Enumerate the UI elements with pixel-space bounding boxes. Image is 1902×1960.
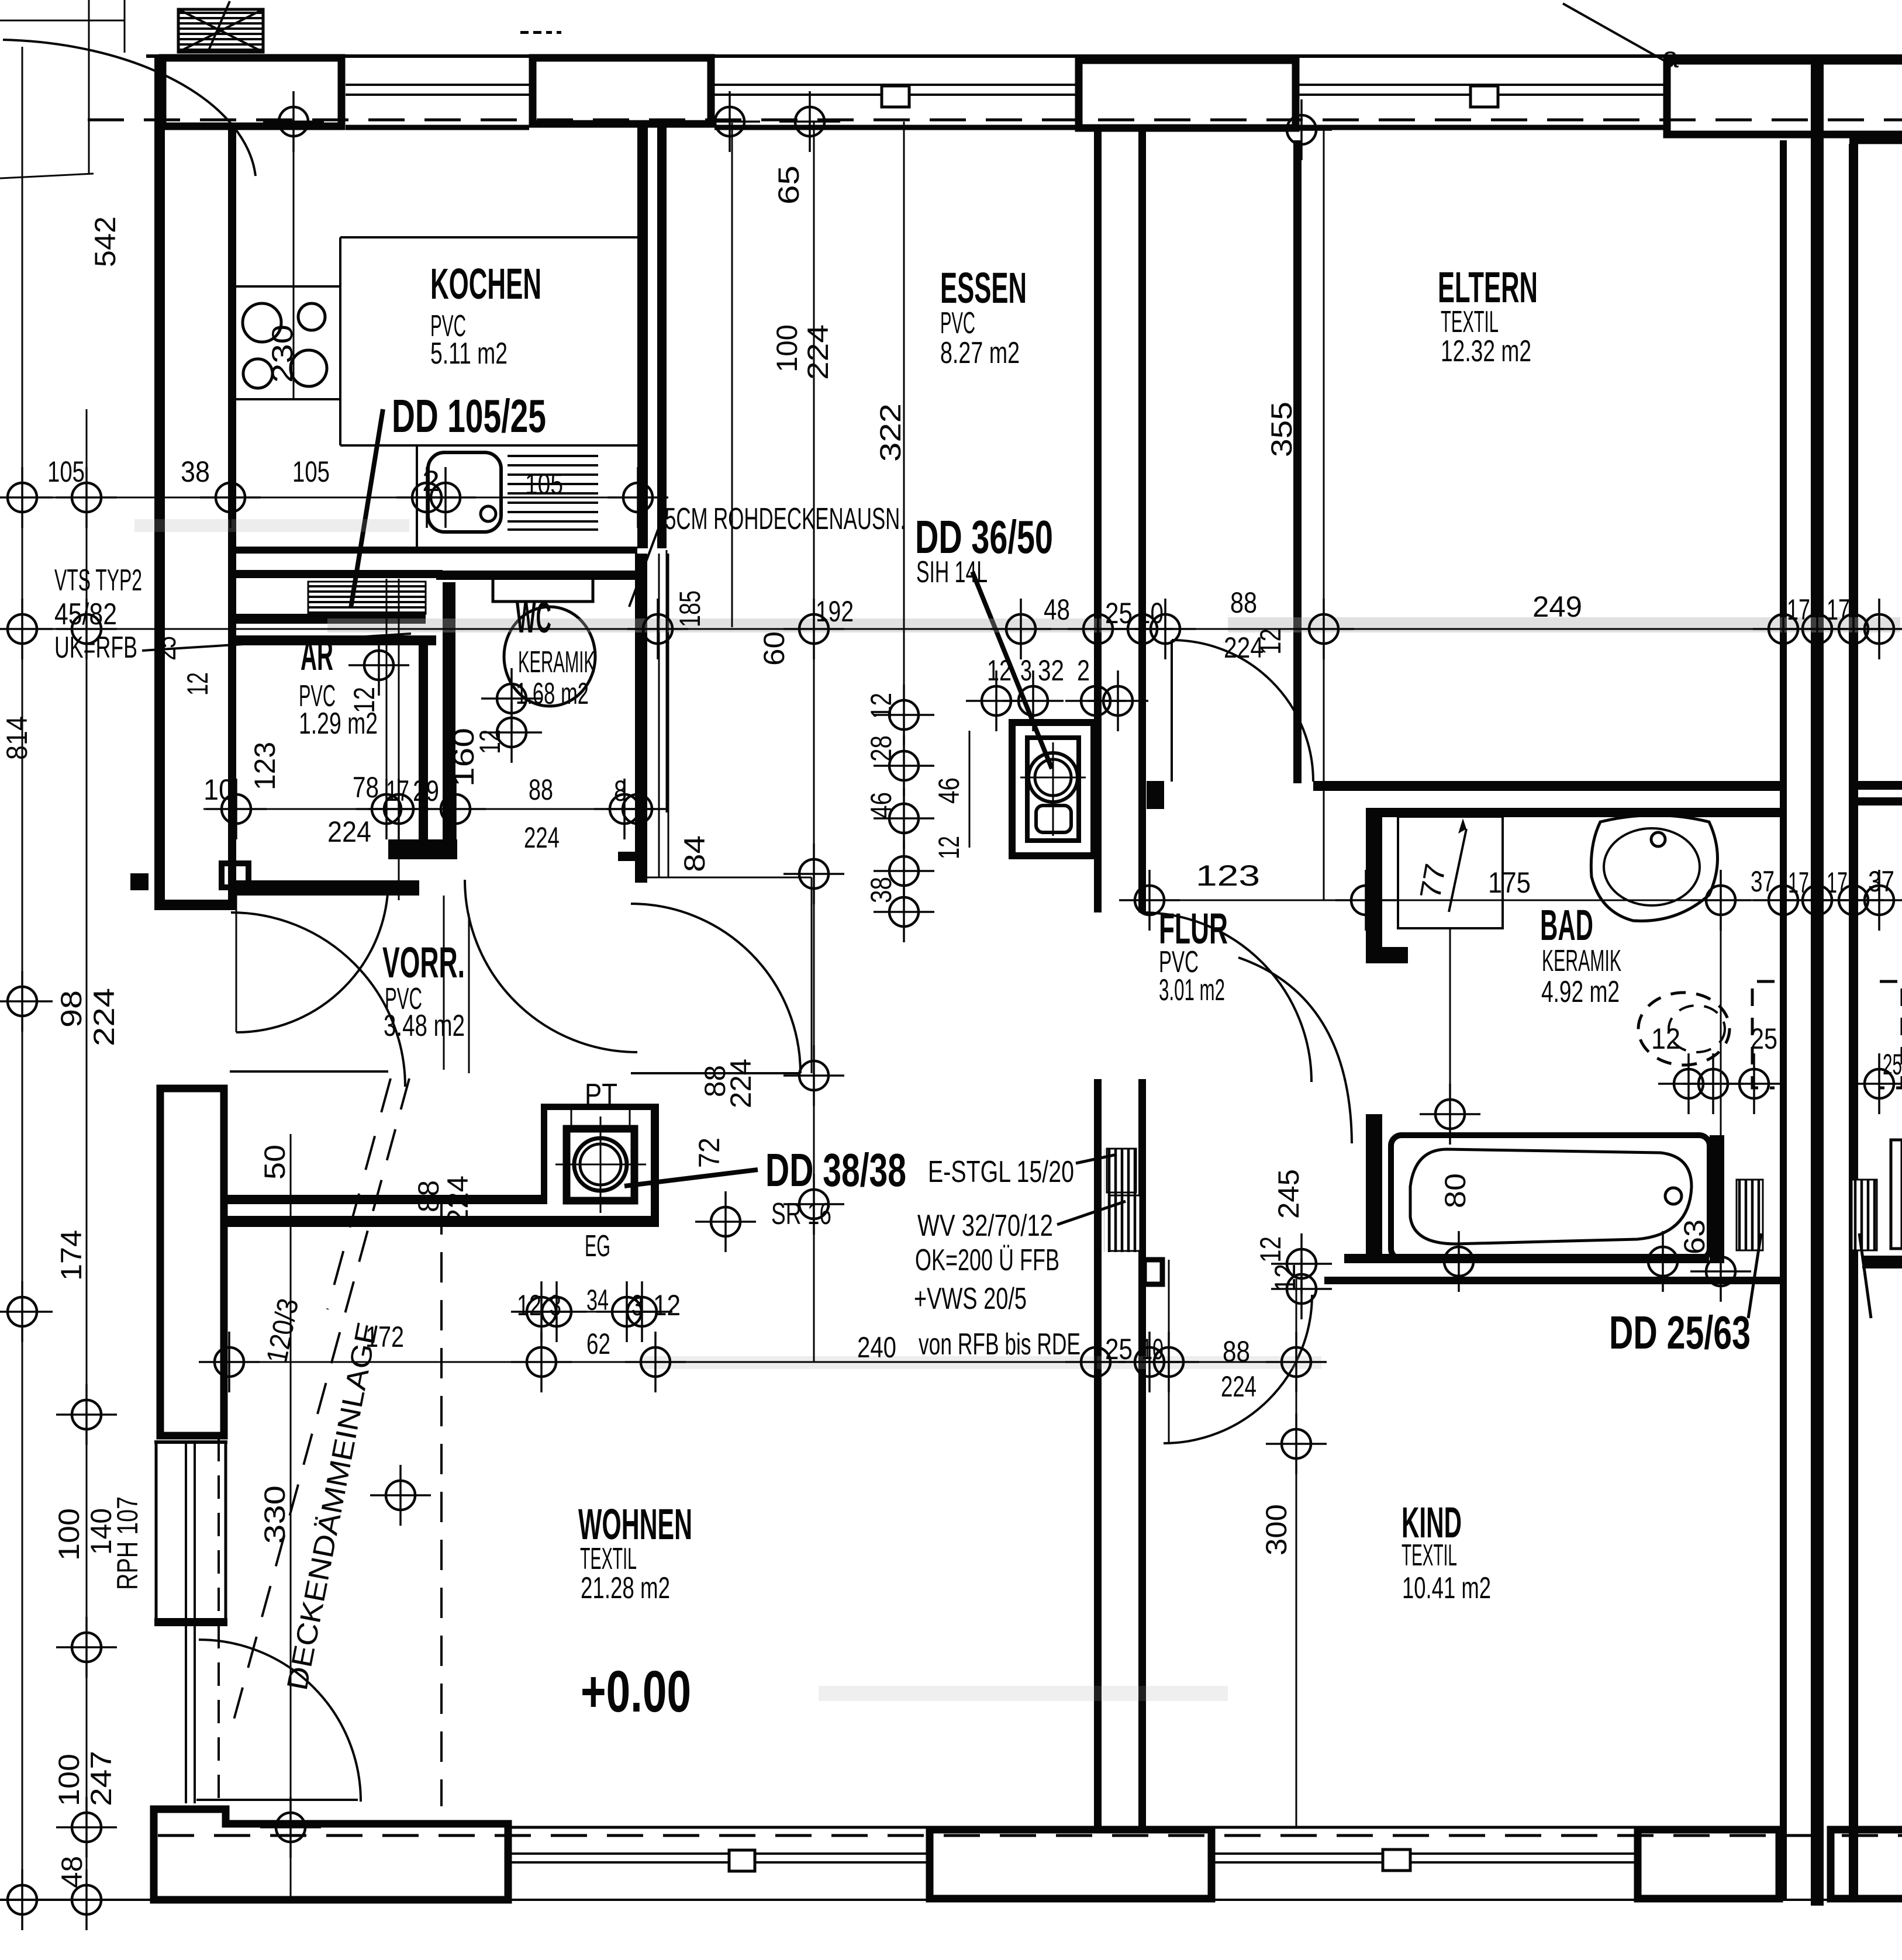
svg-text:224: 224 <box>1221 1370 1257 1403</box>
svg-text:88: 88 <box>529 773 553 806</box>
ESSEN/FLUR wall bar east lower <box>1138 1079 1146 1830</box>
svg-text:12: 12 <box>933 836 965 859</box>
terrace window left: outer line <box>155 1440 158 1623</box>
dashed bracket right <box>1752 981 1775 1088</box>
kitchen west wall bar <box>228 125 236 910</box>
bottom-left wall chunk A <box>154 1809 508 1900</box>
svg-text:542: 542 <box>89 216 122 267</box>
svg-text:105: 105 <box>292 455 330 488</box>
bottom terrace window WOHNEN <box>508 1827 926 1862</box>
vertical dim line far left <box>22 47 23 1900</box>
svg-text:5.11 m2: 5.11 m2 <box>430 337 508 371</box>
window W2 center box <box>882 86 909 107</box>
corridor thin line right <box>811 877 813 1073</box>
svg-text:25: 25 <box>1105 1333 1133 1366</box>
svg-text:12: 12 <box>348 687 381 713</box>
entrance door arc <box>231 912 405 1087</box>
KIND chain x1999 <box>1168 1285 1170 1443</box>
svg-text:+0.00: +0.00 <box>581 1659 691 1724</box>
VORR-WOHNEN threshold <box>631 1072 800 1074</box>
svg-text:25: 25 <box>149 636 182 661</box>
svg-text:8: 8 <box>614 775 627 807</box>
neighbour structure top-left <box>0 0 125 178</box>
svg-text:2: 2 <box>1077 654 1090 687</box>
svg-text:DD 38/38: DD 38/38 <box>765 1144 906 1196</box>
svg-text:12: 12 <box>987 654 1012 687</box>
svg-text:249: 249 <box>1532 590 1582 623</box>
kitchen label area frame left <box>339 237 341 445</box>
leader to chimney box <box>208 1 230 51</box>
svg-text:29: 29 <box>413 775 439 807</box>
svg-text:25: 25 <box>1883 1048 1902 1081</box>
bottom wall chunk C <box>1638 1830 1779 1899</box>
WV leader <box>1057 1201 1126 1225</box>
bathtub inner <box>1410 1149 1692 1244</box>
svg-text:21.28 m2: 21.28 m2 <box>581 1571 670 1605</box>
svg-text:322: 322 <box>874 403 907 462</box>
main chain line y1076 <box>35 628 1902 630</box>
svg-text:88: 88 <box>1223 1335 1250 1368</box>
terrace window left: inner line <box>225 1440 227 1623</box>
bottom terrace window KIND <box>1215 1827 1634 1862</box>
svg-text:88: 88 <box>412 1180 445 1212</box>
sink counter top line <box>340 444 637 447</box>
WC east wall bar <box>635 554 647 883</box>
WOHNEN dashed line x755 <box>440 1204 443 1806</box>
pier P1 <box>163 58 341 126</box>
WOHNEN top wall upper line <box>227 1195 544 1204</box>
svg-text:12: 12 <box>653 1289 681 1322</box>
svg-text:174: 174 <box>55 1230 88 1281</box>
svg-text:17: 17 <box>1827 866 1848 899</box>
svg-text:AR: AR <box>301 631 333 679</box>
FLUR stove inner box <box>1027 738 1079 841</box>
bottom window box WOHNEN <box>729 1850 755 1871</box>
right sliver: tub mirror <box>1891 1140 1902 1249</box>
BAD chain line y1540 <box>1142 900 1902 901</box>
svg-text:77: 77 <box>1414 861 1452 901</box>
KIND door leaf <box>1168 1260 1170 1444</box>
svg-text:48: 48 <box>56 1856 88 1888</box>
svg-text:PVC: PVC <box>940 306 975 340</box>
svg-text:105: 105 <box>525 468 563 500</box>
svg-text:WOHNEN: WOHNEN <box>578 1500 692 1548</box>
svg-text:100: 100 <box>53 1754 85 1806</box>
left pier rect <box>160 1088 224 1436</box>
vertical dim line left second <box>86 409 88 1900</box>
BAD west stub <box>1366 817 1382 963</box>
svg-text:330: 330 <box>258 1485 291 1544</box>
svg-text:E-STGL 15/20: E-STGL 15/20 <box>928 1155 1074 1189</box>
terrace door threshold <box>196 1799 358 1801</box>
window W3 center box <box>1470 86 1498 107</box>
svg-text:12: 12 <box>517 1289 541 1322</box>
KIND door arc <box>1164 1295 1312 1443</box>
FLUR stove DD36/50 outer box <box>1012 723 1094 856</box>
bottom chain line left <box>0 1899 154 1901</box>
svg-text:230: 230 <box>266 324 299 383</box>
DD25/63 leader <box>1748 1233 1761 1318</box>
svg-text:50: 50 <box>258 1145 291 1180</box>
svg-text:100: 100 <box>771 324 803 372</box>
svg-text:224: 224 <box>524 821 560 854</box>
svg-text:245: 245 <box>1272 1169 1305 1219</box>
peg outline near KIND door <box>1144 1260 1162 1284</box>
bathtub drain <box>1665 1188 1682 1204</box>
KIND top wall thin line <box>1324 1277 1782 1284</box>
EG chain line y2244 <box>517 1311 664 1313</box>
WC cistern <box>493 578 593 602</box>
svg-text:140: 140 <box>85 1508 118 1555</box>
svg-text:OK=200 Ü FFB: OK=200 Ü FFB <box>915 1243 1059 1277</box>
svg-text:46: 46 <box>933 777 965 804</box>
bottom thin line full <box>0 1899 1902 1901</box>
svg-text:123: 123 <box>1196 859 1260 892</box>
svg-text:SIH 14L: SIH 14L <box>916 555 988 589</box>
5cm slab recess double line <box>659 554 668 877</box>
DD105/25 leader <box>351 409 383 608</box>
svg-text:4.92 m2: 4.92 m2 <box>1541 975 1620 1009</box>
svg-text:VTS TYP2: VTS TYP2 <box>54 564 142 597</box>
svg-text:DD 105/25: DD 105/25 <box>392 390 546 442</box>
kitchen label area frame top <box>340 236 637 238</box>
svg-text:88: 88 <box>1230 586 1257 619</box>
washbasin outer <box>1591 815 1717 921</box>
ELTERN dim line x2264 <box>1323 126 1325 900</box>
svg-text:224: 224 <box>441 1176 474 1225</box>
FLUR stove circle outer <box>1028 753 1078 802</box>
svg-text:BAD: BAD <box>1540 901 1593 949</box>
svg-text:34: 34 <box>586 1284 609 1316</box>
AR top wall <box>236 570 443 578</box>
svg-text:VORR.: VORR. <box>382 938 465 987</box>
washbasin drain <box>1651 832 1665 846</box>
heater VTS hatch <box>308 582 426 614</box>
KIND dim line x2217 <box>1296 1279 1297 1827</box>
svg-text:84: 84 <box>678 835 711 872</box>
svg-text:8.27 m2: 8.27 m2 <box>940 336 1020 370</box>
svg-text:224: 224 <box>327 815 371 848</box>
top-right leader diagonal <box>1563 4 1673 65</box>
svg-text:12: 12 <box>474 730 506 754</box>
window W3 glass lines <box>1299 85 1663 95</box>
bathtub outer <box>1391 1135 1710 1259</box>
svg-text:78: 78 <box>353 771 379 804</box>
svg-text:28: 28 <box>865 735 898 762</box>
svg-text:5CM ROHDECKENAUSN.: 5CM ROHDECKENAUSN. <box>665 502 906 536</box>
svg-text:80: 80 <box>1439 1173 1472 1208</box>
party wall bar center <box>1811 57 1824 1906</box>
svg-text:100: 100 <box>53 1508 85 1561</box>
pier P2 <box>533 58 711 124</box>
svg-text:12: 12 <box>1254 628 1287 655</box>
svg-text:45/82: 45/82 <box>54 597 117 631</box>
dashed line in terrace door <box>218 1438 220 1806</box>
door jamb notch AR <box>222 863 248 887</box>
Deckendaemmeinlage diagonal dashed <box>231 1078 409 1730</box>
svg-text:17: 17 <box>1787 593 1810 626</box>
wall connector below VORR door jamb <box>154 900 236 910</box>
svg-text:12.32 m2: 12.32 m2 <box>1441 334 1531 368</box>
FLUR stove door rect <box>1036 806 1071 832</box>
AR east wall bar <box>419 642 428 839</box>
svg-text:46: 46 <box>865 792 898 818</box>
svg-text:224: 224 <box>724 1059 757 1108</box>
stove burner 1 <box>243 303 281 342</box>
terrace door arc WOHNEN <box>199 1640 361 1802</box>
pier P4 inner line right part <box>1849 137 1902 144</box>
svg-text:175: 175 <box>1488 866 1531 899</box>
FLUR stove crosshair <box>1020 777 1086 779</box>
svg-text:72: 72 <box>693 1138 726 1168</box>
svg-text:WC: WC <box>516 593 551 642</box>
kitchen counter bottom wall <box>236 547 637 554</box>
svg-text:37: 37 <box>1868 865 1894 898</box>
svg-text:KERAMIK: KERAMIK <box>1542 944 1621 978</box>
sink basin <box>428 452 501 532</box>
svg-text:240: 240 <box>857 1331 896 1364</box>
svg-text:+VWS 20/5: +VWS 20/5 <box>914 1282 1027 1316</box>
svg-text:DD 25/63: DD 25/63 <box>1609 1306 1751 1358</box>
WC east wall foot <box>618 852 635 861</box>
BAD top wall lower line <box>1366 808 1780 817</box>
svg-text:224: 224 <box>88 988 120 1046</box>
svg-text:63: 63 <box>1678 1219 1711 1254</box>
stove dim line x502 <box>293 122 295 399</box>
ELTERN door arc <box>1172 640 1313 782</box>
chimney top wall <box>541 1104 659 1110</box>
dim line x682 <box>398 579 400 900</box>
svg-text:SR 16: SR 16 <box>771 1197 831 1231</box>
right sliver: KIND mirror top wall <box>1862 1256 1902 1268</box>
svg-text:10: 10 <box>1137 597 1164 630</box>
svg-text:3.48 m2: 3.48 m2 <box>384 1009 465 1043</box>
DD25/63 leader mirror <box>1859 1233 1871 1318</box>
pier P4 <box>1667 61 1902 134</box>
KIND top wall <box>1344 1254 1709 1263</box>
sink drain <box>481 506 496 521</box>
stove burner 2 <box>298 303 325 330</box>
svg-text:17: 17 <box>1827 593 1850 626</box>
right sliver hatch shaft left <box>1737 1180 1763 1250</box>
E-STGL leader <box>1076 1154 1117 1163</box>
svg-text:224: 224 <box>802 324 834 380</box>
stove box in chimney <box>567 1129 634 1201</box>
svg-text:UK=RFB: UK=RFB <box>54 631 137 665</box>
right sliver: BAD mirror top walls <box>1858 781 1902 790</box>
svg-text:814: 814 <box>1 716 33 760</box>
svg-text:10.41 m2: 10.41 m2 <box>1402 1571 1491 1605</box>
KIND door threshold dashes <box>1449 928 1451 1114</box>
svg-text:105: 105 <box>47 455 85 488</box>
BAD west stub foot <box>1366 947 1408 963</box>
svg-text:65: 65 <box>772 165 805 205</box>
sink drainer hatch <box>508 456 598 530</box>
chimney right wall <box>651 1104 659 1227</box>
AR chain line y1384 <box>203 808 647 810</box>
svg-text:98: 98 <box>55 990 88 1028</box>
party wall bar right <box>1849 144 1858 1900</box>
svg-text:EG: EG <box>585 1229 610 1263</box>
WOHNEN chain line y2330 <box>236 1361 1320 1363</box>
WC toilet bowl <box>504 607 595 706</box>
svg-text:KERAMIK: KERAMIK <box>518 645 595 679</box>
tub east wall bar <box>1710 1135 1724 1263</box>
dashed future toilet in BAD <box>1638 993 1730 1065</box>
ESSEN/FLUR wall bar east upper <box>1138 125 1146 912</box>
5CM leader <box>629 516 663 607</box>
dim line x1140 <box>666 550 668 813</box>
WC top wall <box>436 571 637 580</box>
party wall bar left <box>1780 140 1787 1900</box>
right sliver hatch shaft right <box>1852 1180 1877 1250</box>
svg-text:10: 10 <box>1141 1333 1164 1366</box>
svg-text:ELTERN: ELTERN <box>1438 263 1538 312</box>
svg-text:1.68 m2: 1.68 m2 <box>516 677 589 711</box>
svg-text:185: 185 <box>674 590 706 627</box>
svg-text:3: 3 <box>631 1289 643 1322</box>
svg-text:12: 12 <box>1254 1236 1287 1263</box>
peg on flur wall <box>1147 781 1164 809</box>
svg-text:12: 12 <box>865 693 898 719</box>
chimney hatch box top-left <box>178 9 263 52</box>
terrace window sill bottom / door lintel <box>154 1618 227 1626</box>
svg-text:10: 10 <box>203 773 234 806</box>
dashed axis bottom <box>158 1834 1902 1837</box>
washbasin inner <box>1604 828 1700 905</box>
svg-text:60: 60 <box>758 631 791 666</box>
chimney inner verticals <box>571 1110 572 1129</box>
svg-text:12: 12 <box>181 672 214 696</box>
svg-text:ESSEN: ESSEN <box>940 264 1027 312</box>
FLUR stove circle inner <box>1035 759 1071 796</box>
UK=RFB leader <box>142 634 411 651</box>
svg-text:192: 192 <box>816 595 854 628</box>
cabinet 77 arrow <box>1449 829 1466 912</box>
DD38/38 leader <box>624 1170 758 1186</box>
ELTERN door leaf <box>1171 640 1173 782</box>
svg-text:32: 32 <box>1038 654 1064 687</box>
svg-text:von RFB bis RDE: von RFB bis RDE <box>919 1328 1081 1361</box>
bottom wall chunk B <box>930 1830 1211 1899</box>
E-STGL hatch box <box>1107 1149 1136 1192</box>
window W1 glass lines <box>346 85 529 95</box>
bottom wall chunk D right of party <box>1831 1830 1902 1899</box>
ESSEN dim line x1546 <box>903 122 905 938</box>
pier P3 <box>1079 60 1296 128</box>
WOHNEN top wall lower line <box>227 1216 659 1227</box>
WC west wall bar <box>443 582 455 839</box>
svg-text:300: 300 <box>1260 1504 1293 1555</box>
AR/WC wall T-foot <box>388 839 457 859</box>
stove burner 3 <box>243 359 272 388</box>
svg-text:2: 2 <box>422 465 440 497</box>
svg-text:3: 3 <box>550 1289 561 1322</box>
corridor thin line top <box>636 877 812 879</box>
bottom window box KIND <box>1383 1850 1410 1871</box>
kitchen chain line y851 <box>22 497 667 499</box>
svg-text:3: 3 <box>1020 654 1032 687</box>
neighbour arc top-left <box>3 40 256 176</box>
BAD door arc <box>1238 957 1352 1143</box>
chimney stove circle inner <box>580 1144 621 1185</box>
entrance threshold line <box>230 1070 388 1073</box>
cabinet 77 in BAD <box>1398 817 1503 928</box>
WC door arc <box>465 880 637 1052</box>
svg-text:38: 38 <box>865 877 898 903</box>
svg-text:WV 32/70/12: WV 32/70/12 <box>917 1209 1053 1243</box>
svg-text:38: 38 <box>181 455 210 488</box>
left outer wall upper bar <box>154 54 165 910</box>
svg-text:KOCHEN: KOCHEN <box>430 260 541 308</box>
svg-text:12: 12 <box>1269 1264 1302 1292</box>
terrace window sill top <box>154 1440 227 1444</box>
svg-text:25: 25 <box>1751 1022 1777 1055</box>
kitchen counter line above stove <box>236 285 340 288</box>
svg-text:17: 17 <box>1788 866 1809 899</box>
chimney left wall <box>541 1104 547 1204</box>
svg-text:17: 17 <box>386 775 409 807</box>
svg-text:3.01 m2: 3.01 m2 <box>1159 973 1225 1007</box>
dashed bracket mirror <box>1880 981 1902 1088</box>
svg-text:PT: PT <box>585 1078 617 1112</box>
svg-text:123: 123 <box>248 742 281 790</box>
BAD dim line x2943 <box>1720 900 1722 1279</box>
chimney stove circle outer <box>574 1138 627 1191</box>
stove burner 4 <box>291 350 327 386</box>
terrace window left: glass lines <box>186 1440 195 1803</box>
VORR-WOHNEN door arc <box>631 904 800 1073</box>
svg-text:355: 355 <box>1265 402 1298 457</box>
svg-text:247: 247 <box>85 1751 118 1806</box>
ELTERN west wall <box>1293 140 1302 783</box>
heater smudge band <box>236 614 426 624</box>
dim circles <box>56 467 117 528</box>
kitchen counter line below stove <box>236 398 340 400</box>
ESSEN/FLUR wall bar west lower <box>1094 1079 1102 1830</box>
svg-text:48: 48 <box>1044 593 1070 626</box>
WV hatch box <box>1110 1195 1140 1251</box>
FLUR door arc <box>1142 912 1311 1082</box>
svg-text:172: 172 <box>365 1321 404 1353</box>
svg-text:12: 12 <box>1651 1022 1680 1055</box>
BAD top wall upper line <box>1313 781 1780 791</box>
svg-text:37: 37 <box>1751 865 1775 898</box>
KOCHEN/ESSEN wall bar east <box>657 127 667 548</box>
dim line x2480 vertical BAD <box>1449 928 1451 1135</box>
AR door leaf <box>236 880 237 1032</box>
svg-text:TEXTIL: TEXTIL <box>1402 1539 1457 1572</box>
window W2 glass lines <box>714 85 1075 95</box>
ESSEN/FLUR wall bar west upper <box>1094 125 1102 912</box>
mini dim line x1658 <box>969 731 971 848</box>
KOCHEN/ESSEN wall bar west <box>637 127 648 548</box>
wall below heater <box>236 635 436 645</box>
AR door arc <box>236 880 388 1032</box>
ESSEN dim line x1392 <box>813 122 815 1362</box>
diagonal dashed second <box>327 1078 391 1309</box>
dim line x661 <box>386 579 388 813</box>
chimney crosshair <box>555 1164 646 1166</box>
DD36/50 leader <box>972 572 1052 769</box>
sink counter left line <box>416 445 418 547</box>
svg-text:a: a <box>1662 41 1679 74</box>
svg-text:62: 62 <box>586 1328 610 1360</box>
shaft hatch between bars <box>1104 1149 1138 1252</box>
WOHNEN dim line x497 <box>290 1134 292 1900</box>
VORR top wall band <box>236 880 419 896</box>
top outer wall thin line <box>146 54 1902 58</box>
